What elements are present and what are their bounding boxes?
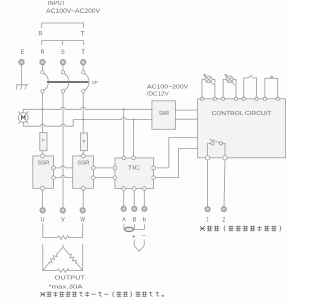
svg-text:SSR: SSR — [77, 160, 89, 166]
svg-text:OUTPUT: OUTPUT — [55, 275, 86, 281]
svg-text:S: S — [61, 49, 65, 56]
wire TIC B down — [133, 190, 135, 206]
wire S terminal to CP — [62, 65, 64, 70]
svg-text:B: B — [133, 217, 137, 223]
svg-text:T: T — [81, 31, 85, 38]
wire fuse1 to SSR1 — [42, 151, 44, 154]
wire control bus lower — [23, 120, 152, 127]
SSR U2 terminal ctrl+ — [92, 166, 96, 170]
svg-text:R: R — [39, 31, 43, 38]
control box bottom terminal 2 — [223, 156, 227, 160]
wire SSR2 to W — [82, 190, 84, 207]
input bracket R-T — [42, 23, 84, 28]
SSR U1 terminal top — [41, 154, 45, 158]
SSR U1 terminal ctrl+ — [52, 166, 56, 170]
terminal 2 — [222, 207, 227, 212]
hop lower bus over TIC wire1 — [122, 117, 126, 119]
wire phase R down CP to fuse — [42, 93, 44, 132]
terminal W — [80, 208, 85, 213]
hop ctrl- over S — [61, 175, 65, 177]
hop ctrl+ over S — [61, 166, 65, 168]
ground symbol — [16, 85, 28, 89]
input bracket R-S-T — [42, 41, 84, 46]
svg-text:F: F — [42, 138, 45, 143]
fuse F2 — [80, 133, 87, 151]
fan motor M — [18, 113, 28, 123]
SSR U2 terminal top — [81, 154, 85, 158]
RTD sensor bracket — [124, 225, 144, 230]
junction upper bus at R — [42, 108, 44, 110]
SSR U2 terminal ctrl- — [92, 176, 96, 180]
wire to terminal 1 — [207, 160, 209, 206]
wire TIC b down — [143, 190, 145, 206]
temperature controller TIC box — [115, 158, 154, 189]
TIC terminal botb — [143, 187, 147, 191]
wire to terminal 2 — [224, 160, 225, 206]
pilot lamp PL1 — [202, 79, 215, 97]
terminal S — [61, 60, 66, 65]
svg-text:INPUT: INPUT — [48, 1, 66, 7]
breaker CP pole R — [41, 71, 44, 74]
SSR U1 box — [33, 156, 54, 188]
delta bottom with resistor — [43, 270, 83, 272]
terminal T — [81, 60, 86, 65]
wire TIC supply 2 — [133, 120, 135, 157]
svg-text:W: W — [80, 216, 85, 223]
svg-text:A: A — [122, 217, 126, 223]
note max current heater load (japanese) — [40, 291, 163, 297]
svg-text:F: F — [83, 139, 86, 144]
wire SSR1 to U — [42, 190, 44, 207]
breaker CP pole S — [61, 71, 64, 74]
RTD sensor bulb — [125, 227, 134, 231]
wire SWR out1 — [176, 109, 198, 111]
wire SWR out2 — [176, 118, 198, 120]
wire SSR1 ctrl+ to SSR2 — [55, 167, 72, 169]
hop lower bus over S — [61, 124, 65, 126]
svg-text:SWR: SWR — [159, 111, 169, 117]
junction upper bus TIC tap — [123, 108, 125, 110]
SSR U1 terminal ctrl- — [52, 176, 56, 180]
delta side left with resistor — [43, 247, 63, 271]
switch SW2 — [265, 78, 278, 97]
terminal b — [142, 207, 147, 212]
pilot lamp PL2 — [223, 79, 236, 97]
hop lower bus over R — [40, 124, 44, 126]
thermocouple symbol — [134, 240, 144, 252]
terminal U — [40, 208, 45, 213]
power supply SWR box — [152, 101, 176, 130]
terminal V — [61, 208, 66, 213]
wire phase S down CP to terminal V — [62, 93, 64, 207]
svg-text:E: E — [21, 49, 25, 56]
resistor heater single — [58, 236, 70, 240]
TIC terminal botB — [132, 187, 136, 191]
svg-text:*max.30A: *max.30A — [49, 285, 83, 291]
TIC terminal left1 — [113, 166, 117, 170]
terminal E — [19, 60, 24, 65]
TIC terminal top1 — [122, 156, 126, 160]
svg-text:+: + — [132, 233, 136, 240]
control circuit box — [198, 99, 286, 158]
hop upper bus over S — [61, 107, 65, 109]
wire control bus upper — [23, 109, 152, 112]
TIC terminal botA — [122, 187, 126, 191]
switch SW1 — [244, 78, 257, 97]
wire TIC out2 to control — [155, 149, 197, 178]
wire fuse2 to SSR2 — [82, 151, 84, 154]
junction lower bus TIC tap — [133, 119, 135, 121]
relay contact in control box — [211, 142, 214, 145]
wire SSR1 ctrl- to SSR2 — [55, 177, 72, 179]
wire phase T down CP to fuse — [82, 93, 84, 133]
junction lower bus at T — [82, 119, 84, 121]
delta side right with resistor — [63, 247, 83, 271]
terminal B — [132, 207, 137, 212]
breaker CP pole T — [82, 71, 85, 74]
note control contact output (japanese) — [200, 226, 281, 232]
TIC terminal left2 — [113, 176, 117, 180]
svg-text:/DC12V: /DC12V — [147, 92, 169, 98]
svg-text:CP: CP — [92, 80, 98, 86]
svg-text:R: R — [41, 49, 45, 56]
svg-text:SSR: SSR — [37, 160, 49, 166]
svg-text:−: − — [142, 233, 146, 240]
SSR U2 box — [73, 156, 94, 188]
control box bottom terminal 1 — [205, 156, 209, 160]
TIC terminal right2 — [152, 176, 156, 180]
breaker CP tie bar — [48, 81, 88, 83]
hop upper bus over T — [81, 107, 85, 109]
wire TIC A down — [123, 190, 125, 206]
svg-text:U: U — [41, 216, 45, 223]
svg-text:TIC: TIC — [128, 166, 140, 172]
svg-text:T: T — [81, 49, 85, 56]
terminal A — [121, 207, 126, 212]
svg-text:AC100V~AC200V: AC100V~AC200V — [46, 9, 100, 15]
wire E down — [21, 65, 23, 84]
delta heater stubs — [43, 244, 83, 270]
single phase heater bracket — [43, 224, 83, 238]
svg-text:AC100~200V: AC100~200V — [147, 84, 188, 90]
svg-text:CONTROL CIRCUIT: CONTROL CIRCUIT — [212, 111, 272, 117]
TIC terminal right1 — [152, 166, 156, 170]
fuse F1 — [40, 133, 47, 151]
wire TIC out1 to control — [155, 138, 197, 168]
SSR U1 terminal bottom — [41, 186, 45, 190]
terminal 1 — [205, 207, 210, 212]
wire T terminal to CP — [82, 65, 84, 70]
wire SSR2 ctrl+ to TIC — [95, 167, 113, 169]
TIC terminal top2 — [132, 156, 136, 160]
terminal R — [40, 60, 45, 65]
wire TIC supply 1 — [123, 109, 125, 156]
control box terminals top — [200, 97, 203, 100]
wire SSR2 ctrl- to TIC — [95, 177, 113, 179]
SSR U2 terminal bottom — [81, 186, 85, 190]
wire R terminal to CP — [42, 65, 44, 70]
